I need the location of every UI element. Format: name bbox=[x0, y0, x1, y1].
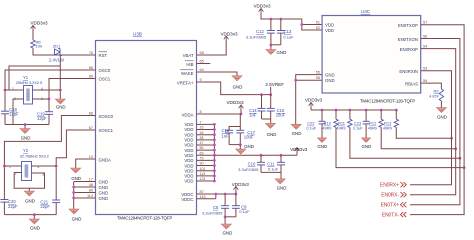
svg-text:GND: GND bbox=[325, 78, 335, 83]
capacitor C23 0.1uF bbox=[365, 110, 367, 121]
svg-text:57: 57 bbox=[423, 21, 427, 25]
svg-text:EN0TX+: EN0TX+ bbox=[381, 202, 400, 208]
svg-text:HIB: HIB bbox=[186, 62, 193, 67]
wire C16 C17 ground bbox=[229, 144, 240, 146]
wire RBIAS net bbox=[421, 83, 442, 89]
op-amp U3C microcontroller TM4C1294NCPDT part C box bbox=[322, 16, 421, 94]
wire C14 C15 ground bbox=[262, 118, 271, 120]
svg-text:2.5VREF: 2.5VREF bbox=[265, 82, 284, 87]
svg-text:32.768kHz 5X3.2: 32.768kHz 5X3.2 bbox=[20, 154, 50, 159]
wire R10 to EN0TXOP bbox=[336, 127, 464, 167]
svg-text:10: 10 bbox=[89, 155, 93, 159]
wire VREFA+ net bbox=[197, 82, 271, 95]
svg-text:C8: C8 bbox=[213, 205, 219, 210]
svg-text:GND: GND bbox=[325, 73, 335, 78]
svg-text:38: 38 bbox=[200, 136, 204, 140]
capacitor C18 12pF bbox=[1, 110, 9, 112]
ground GND for GND pins bbox=[69, 209, 79, 214]
capacitor C14 1uF bbox=[261, 95, 263, 109]
svg-text:22pF: 22pF bbox=[40, 204, 50, 209]
svg-text:R9: R9 bbox=[433, 88, 439, 93]
svg-text:VDD3v3: VDD3v3 bbox=[232, 182, 250, 187]
ground GND under ZD1 bbox=[55, 99, 65, 104]
svg-text:55: 55 bbox=[316, 71, 320, 75]
capacitor C12 3.3uF/0805 bbox=[270, 19, 272, 31]
svg-text:VDDA: VDDA bbox=[182, 113, 194, 118]
wire Y1 pin4 to ZD1 ground bbox=[33, 89, 61, 91]
ground GND under C22 bbox=[318, 138, 327, 143]
wire EN0RXIN net bbox=[410, 71, 452, 185]
wire WAKE net bbox=[197, 72, 238, 76]
wire XOSC0 net bbox=[4, 116, 95, 200]
svg-text:51: 51 bbox=[316, 20, 320, 24]
wire Y1 pin3 bbox=[33, 98, 50, 100]
crystal Y2 32.768kHz bbox=[22, 162, 32, 181]
svg-text:3.3uF/0805: 3.3uF/0805 bbox=[238, 167, 259, 172]
svg-text:VDDC: VDDC bbox=[181, 197, 193, 202]
svg-text:GND: GND bbox=[362, 144, 372, 149]
svg-text:9: 9 bbox=[200, 78, 202, 82]
wire GNDA net bbox=[76, 159, 96, 168]
svg-text:GND: GND bbox=[99, 179, 109, 184]
svg-text:10uF: 10uF bbox=[276, 113, 286, 118]
svg-text:88: 88 bbox=[89, 66, 93, 70]
resistor R11 49R9 bbox=[349, 110, 351, 119]
svg-text:54: 54 bbox=[423, 44, 427, 48]
svg-text:10uF: 10uF bbox=[244, 134, 254, 139]
svg-text:58: 58 bbox=[316, 76, 320, 80]
capacitor C16 1uF bbox=[229, 127, 240, 131]
svg-text:49R9: 49R9 bbox=[383, 126, 392, 130]
svg-text:0.1uF: 0.1uF bbox=[268, 166, 279, 171]
wire VDDC net bbox=[197, 193, 236, 195]
svg-text:GND: GND bbox=[30, 226, 40, 231]
resistor R9 4.87K bbox=[439, 89, 443, 101]
svg-text:0.1uF: 0.1uF bbox=[283, 35, 294, 40]
ground GND under C10 C11 bbox=[275, 179, 285, 184]
svg-text:GND: GND bbox=[223, 230, 233, 235]
op-amp U3B microcontroller TM4C1294NCPDT part B box bbox=[96, 41, 197, 215]
svg-text:49R9: 49R9 bbox=[322, 126, 331, 130]
svg-text:67: 67 bbox=[89, 126, 93, 130]
ground GND under Y2 bbox=[24, 191, 34, 196]
svg-text:VREFA+: VREFA+ bbox=[177, 81, 194, 86]
svg-text:R10: R10 bbox=[324, 121, 332, 126]
svg-text:GND: GND bbox=[292, 131, 302, 136]
svg-text:22pF: 22pF bbox=[8, 204, 18, 209]
svg-text:EN0RX+: EN0RX+ bbox=[380, 182, 399, 188]
svg-text:ZD1: ZD1 bbox=[53, 44, 61, 49]
svg-text:GND: GND bbox=[317, 144, 327, 149]
ground GND for GNDA bbox=[71, 168, 81, 173]
svg-text:GNDA: GNDA bbox=[99, 157, 112, 162]
capacitor C20 22pF bbox=[0, 199, 8, 201]
svg-text:3.3uF/0805: 3.3uF/0805 bbox=[202, 210, 223, 215]
svg-text:GND: GND bbox=[437, 114, 447, 119]
svg-text:100: 100 bbox=[36, 44, 43, 49]
wire HIB stub bbox=[197, 63, 211, 65]
svg-text:VDD: VDD bbox=[184, 179, 193, 184]
wire C18 C19 ground rail bbox=[4, 114, 6, 125]
svg-text:C12: C12 bbox=[256, 29, 264, 34]
svg-text:EN0TXOP: EN0TXOP bbox=[398, 23, 418, 28]
capacitor C17 10uF bbox=[239, 114, 241, 130]
svg-text:59: 59 bbox=[423, 79, 427, 83]
wire VDD rail to VDD3v3 bbox=[214, 154, 297, 156]
resistor R10 49R9 bbox=[335, 110, 337, 119]
svg-text:C16: C16 bbox=[222, 128, 230, 133]
wire R9 to ground bbox=[440, 101, 442, 108]
ground GND bottom left bbox=[33, 215, 35, 219]
svg-text:12pF: 12pF bbox=[37, 116, 47, 121]
wire OSC0 net bbox=[5, 70, 96, 111]
wire Y2 pin4 bbox=[32, 165, 57, 167]
svg-text:69: 69 bbox=[200, 151, 204, 155]
svg-text:49R9: 49R9 bbox=[336, 126, 345, 130]
svg-text:EN0RXIN: EN0RXIN bbox=[399, 69, 418, 74]
svg-text:XOSC1: XOSC1 bbox=[99, 128, 114, 133]
wire C20 C21 ground rail bbox=[3, 202, 5, 215]
svg-text:4: 4 bbox=[41, 87, 43, 91]
capacitor C19 12pF bbox=[45, 111, 53, 113]
svg-text:GND: GND bbox=[21, 136, 31, 141]
wire VDD pins bus bbox=[197, 123, 215, 125]
svg-text:GND: GND bbox=[99, 185, 109, 190]
svg-text:GND: GND bbox=[277, 185, 287, 190]
zener diode ZD1 2.4V1W bbox=[55, 49, 62, 56]
wire C10 C11 ground bbox=[261, 171, 281, 173]
wire XOSC1 net bbox=[56, 130, 95, 200]
power VDD3v3 VBAT bbox=[224, 36, 229, 41]
resistor R13 49R9 bbox=[395, 110, 397, 119]
wire Y2 pin2 pin3 to ground bbox=[14, 173, 44, 189]
wire R11 to EN0TXON bbox=[350, 127, 460, 158]
capacitor C22 0.1uF bbox=[321, 110, 323, 121]
wire EN0TXON net bbox=[410, 39, 460, 205]
wire termination bus bbox=[310, 107, 312, 111]
capacitor C10 3.3uF bbox=[260, 155, 262, 162]
svg-text:U3B: U3B bbox=[133, 32, 142, 37]
svg-text:GND: GND bbox=[56, 104, 66, 109]
svg-text:GND: GND bbox=[277, 50, 287, 55]
wire GND pins bus bbox=[74, 181, 96, 183]
capacitor C15 10uF bbox=[270, 95, 272, 109]
capacitor C13 0.1uF bbox=[280, 19, 282, 31]
svg-text:C23: C23 bbox=[354, 121, 362, 126]
svg-text:65: 65 bbox=[200, 59, 204, 63]
svg-text:GND: GND bbox=[72, 217, 82, 222]
svg-text:C22: C22 bbox=[307, 121, 315, 126]
svg-text:25MHz 3.2X2.5: 25MHz 3.2X2.5 bbox=[16, 80, 43, 85]
svg-text:12pF: 12pF bbox=[9, 112, 19, 117]
svg-text:89: 89 bbox=[89, 74, 93, 78]
capacitor C9 0.1uF bbox=[235, 194, 237, 206]
svg-text:R11: R11 bbox=[338, 121, 346, 126]
svg-text:56: 56 bbox=[423, 34, 427, 38]
svg-text:C13: C13 bbox=[284, 29, 292, 34]
ground GND for WAKE bbox=[232, 76, 242, 81]
svg-text:64: 64 bbox=[200, 68, 204, 72]
svg-text:GND: GND bbox=[99, 190, 109, 195]
ground GND under C16 C17 bbox=[236, 149, 246, 154]
wire C8 C9 ground bbox=[225, 216, 236, 218]
node crystal pin4 junction bbox=[59, 89, 62, 92]
ground GND under C23 bbox=[362, 138, 371, 143]
resistor R12 49R9 bbox=[380, 110, 382, 119]
ground GND under C12 C13 bbox=[266, 50, 276, 55]
capacitor C8 3.3uF bbox=[224, 194, 226, 206]
svg-text:GND: GND bbox=[99, 196, 109, 201]
svg-text:Y2: Y2 bbox=[23, 148, 29, 153]
svg-text:GND: GND bbox=[233, 84, 243, 89]
wire ZD1 ground branch bbox=[59, 56, 61, 100]
svg-text:EN0TXON: EN0TXON bbox=[398, 37, 418, 42]
svg-text:VDD3v3: VDD3v3 bbox=[226, 100, 244, 105]
wire VDDA net bbox=[197, 113, 242, 115]
svg-text:R12: R12 bbox=[369, 121, 377, 126]
svg-text:49R9: 49R9 bbox=[368, 126, 377, 130]
svg-text:1: 1 bbox=[12, 87, 14, 91]
svg-text:OSC1: OSC1 bbox=[99, 76, 111, 81]
svg-text:101: 101 bbox=[200, 167, 206, 171]
wire VDD3v3 to R6 bbox=[32, 30, 34, 41]
svg-text:EN0TX-: EN0TX- bbox=[382, 212, 400, 218]
ground GND under C18 C19 bbox=[24, 125, 26, 129]
wire OSC1 net bbox=[49, 79, 96, 112]
ground GND under C8 C9 bbox=[221, 224, 231, 229]
resistor R6 100 bbox=[31, 40, 35, 48]
svg-text:66: 66 bbox=[89, 111, 93, 115]
node 2.5VREF label bbox=[270, 87, 272, 95]
svg-text:R13: R13 bbox=[384, 121, 392, 126]
capacitor C11 0.1uF bbox=[280, 155, 282, 162]
svg-text:0.1uF: 0.1uF bbox=[306, 126, 316, 130]
svg-text:RST: RST bbox=[99, 53, 108, 58]
svg-text:WAKE: WAKE bbox=[181, 71, 194, 76]
wire EN0TXOP net bbox=[410, 25, 464, 215]
wire VDD3v3 to U3C VDD pins bbox=[261, 13, 322, 31]
wire EN0RXIP net bbox=[410, 49, 456, 195]
svg-text:GND: GND bbox=[244, 144, 254, 149]
wire R13 to EN0RXIN bbox=[396, 127, 451, 138]
power VDD3v3 VDDA bbox=[240, 109, 242, 114]
svg-text:0.1uF: 0.1uF bbox=[353, 126, 363, 130]
svg-text:GND: GND bbox=[25, 198, 35, 203]
svg-text:53: 53 bbox=[423, 67, 427, 71]
svg-text:VDD3v3: VDD3v3 bbox=[305, 97, 323, 102]
wire stub left loop bbox=[9, 66, 60, 90]
svg-text:EN0RXIP: EN0RXIP bbox=[400, 47, 419, 52]
svg-text:76: 76 bbox=[89, 51, 93, 55]
capacitor C21 22pF bbox=[52, 199, 60, 201]
wire C12 C13 ground bbox=[271, 44, 281, 46]
svg-text:26: 26 bbox=[200, 131, 204, 135]
svg-text:XOSC0: XOSC0 bbox=[99, 114, 114, 119]
wire R6 to RST line bbox=[33, 48, 96, 55]
svg-text:VDD: VDD bbox=[325, 28, 334, 33]
svg-text:4.87K: 4.87K bbox=[429, 94, 439, 98]
svg-text:OSC0: OSC0 bbox=[99, 68, 111, 73]
wire VBAT net bbox=[197, 40, 227, 55]
svg-text:68: 68 bbox=[200, 51, 204, 55]
wire Y1 pin2 to ground rail bbox=[13, 99, 24, 125]
svg-text:GND: GND bbox=[71, 176, 81, 181]
svg-text:VDD3v3: VDD3v3 bbox=[220, 31, 238, 36]
svg-text:EN0RX-: EN0RX- bbox=[381, 192, 399, 198]
svg-text:2.4V1W: 2.4V1W bbox=[49, 58, 64, 63]
svg-text:52: 52 bbox=[316, 26, 320, 30]
svg-text:RBIAS: RBIAS bbox=[405, 81, 418, 86]
svg-text:VDD3v3: VDD3v3 bbox=[253, 3, 271, 8]
power VDD3v3 VDDC bbox=[235, 191, 237, 195]
wire Y2 pin1 bbox=[4, 165, 21, 167]
svg-text:U3C: U3C bbox=[361, 9, 371, 14]
ground GND under C14 C15 bbox=[265, 123, 275, 128]
svg-text:1uF: 1uF bbox=[249, 113, 257, 118]
svg-text:1uF: 1uF bbox=[222, 134, 230, 139]
svg-text:87: 87 bbox=[200, 190, 204, 194]
svg-text:VBAT: VBAT bbox=[183, 53, 194, 58]
crystal Y1 25MHz bbox=[24, 86, 33, 105]
wire R12 to EN0RXIP bbox=[381, 127, 456, 148]
svg-text:3.3uF/0805: 3.3uF/0805 bbox=[246, 35, 267, 40]
svg-text:113: 113 bbox=[200, 172, 206, 176]
svg-text:VDD3v3: VDD3v3 bbox=[30, 20, 48, 25]
svg-text:TM4C1294NCPDT-128-TQFP: TM4C1294NCPDT-128-TQFP bbox=[360, 98, 415, 103]
power VDD3v3 rail right bbox=[296, 152, 298, 156]
svg-text:VDD: VDD bbox=[325, 22, 334, 27]
wire Y1 pin1 bbox=[5, 89, 24, 91]
ground GND for U3C bbox=[291, 124, 301, 129]
ground GND under R9 bbox=[436, 108, 446, 113]
svg-text:TM4C1294NCPDT-128-TQFP: TM4C1294NCPDT-128-TQFP bbox=[117, 216, 172, 221]
wire U3C GND pins net bbox=[296, 75, 322, 125]
svg-text:VDD3v3: VDD3v3 bbox=[290, 147, 308, 152]
svg-text:8: 8 bbox=[200, 110, 202, 114]
svg-text:GND: GND bbox=[267, 132, 277, 137]
svg-text:0.1uF: 0.1uF bbox=[239, 209, 250, 214]
